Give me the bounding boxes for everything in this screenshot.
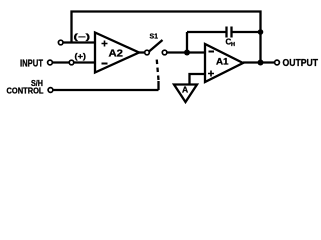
svg-text:A1: A1 <box>216 57 229 67</box>
svg-text:INPUT: INPUT <box>20 59 43 70</box>
svg-text:OUTPUT: OUTPUT <box>283 58 319 69</box>
svg-text:(+): (+) <box>75 52 87 61</box>
svg-text:CONTROL: CONTROL <box>7 86 44 96</box>
svg-text:A2: A2 <box>109 49 124 60</box>
svg-text:H: H <box>231 42 235 48</box>
svg-text:A: A <box>182 85 188 95</box>
svg-text:(−): (−) <box>74 33 91 42</box>
svg-text:S1: S1 <box>150 32 159 41</box>
